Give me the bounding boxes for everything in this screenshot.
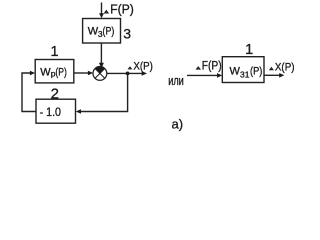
block 2: -1.0 [36,99,76,123]
svg-text:а): а) [172,116,184,131]
wire: disturbance input arrow into W3 block top [99,3,104,19]
wire: ΔF(P) input into W31 block [187,73,222,78]
summing junction (circle with X, filled top sector) [93,66,107,80]
svg-text:F(P): F(P) [110,1,134,16]
delta symbol of ΔX(P) right label [269,67,274,71]
svg-text:1: 1 [245,42,253,58]
svg-text:или: или [168,73,184,88]
svg-text:X(P): X(P) [133,61,153,73]
svg-text:3: 3 [123,26,131,42]
delta symbol of ΔF(P) top label [104,10,110,14]
label W31(P) inside right block [230,65,263,79]
svg-text:31: 31 [240,70,250,80]
svg-text:W: W [40,67,51,79]
label Wp(P) inside block 1 [40,67,67,79]
block 1: W31(P) [222,57,264,83]
label W3(P) inside block 3 [88,26,115,40]
svg-text:F(P): F(P) [202,61,222,73]
delta symbol of ΔX(P) left label [128,66,133,69]
wire: feedback from output node down and left into -1.0 input [76,73,128,113]
svg-text:(P): (P) [55,67,66,79]
wire: W31 output ΔX(P) [264,73,284,78]
block 1: Wp(P) [35,60,74,83]
svg-text:1: 1 [51,44,59,60]
node: output junction dot [126,72,130,76]
block 3: W3(P) [83,19,121,44]
svg-text:(P): (P) [103,26,115,38]
svg-text:- 1.0: - 1.0 [40,105,62,119]
svg-text:(P): (P) [250,65,262,77]
wire: feedback from -1.0 output left and up into Wp input [22,71,36,112]
delta symbol of ΔF(P) right label [196,66,202,70]
svg-text:W: W [230,65,241,77]
wire: summing junction output ΔX(P) [107,71,147,76]
wire: W3 output down into summing junction [99,43,104,68]
wire: Wp output into summing junction [74,71,93,76]
svg-text:X(P): X(P) [275,61,295,73]
